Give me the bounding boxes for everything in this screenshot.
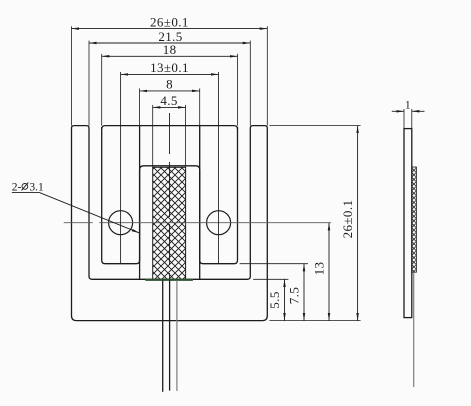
- side view wire gray: [413, 272, 415, 387]
- svg-text:2-: 2-: [12, 181, 22, 193]
- green element base line: [145, 279, 193, 281]
- dimension 26±0.1 right: [357, 126, 359, 321]
- dimension 4.5: [153, 106, 186, 108]
- dimension 21.5: [89, 42, 250, 44]
- wire lead right gray: [176, 280, 178, 391]
- dimension 13 right: [328, 223, 330, 321]
- dimension 7.5 right: [303, 264, 305, 321]
- svg-text:8: 8: [166, 77, 173, 92]
- side view extension lines: [403, 109, 405, 129]
- svg-text:26±0.1: 26±0.1: [150, 14, 189, 29]
- side view plate 1mm thick: [404, 129, 412, 318]
- svg-text:4.5: 4.5: [160, 93, 177, 108]
- hole centerline left: [120, 72, 122, 263]
- svg-text:13: 13: [311, 262, 326, 276]
- hole right: [207, 211, 231, 235]
- svg-text:3.1: 3.1: [29, 181, 44, 193]
- svg-text:18: 18: [163, 42, 177, 57]
- svg-text:5.5: 5.5: [267, 291, 282, 308]
- extension lines right side: [269, 125, 360, 127]
- svg-text:26±0.1: 26±0.1: [340, 200, 355, 239]
- dimension 13±0.1: [121, 73, 219, 75]
- hole centerline right: [218, 72, 220, 263]
- wire lead left: [162, 280, 164, 391]
- dimension 8: [140, 90, 200, 92]
- dimension 26±0.1 top: [72, 28, 268, 30]
- dimension 18: [102, 55, 238, 57]
- vertical centerline of part: [169, 113, 171, 279]
- hole left: [109, 211, 133, 235]
- right window with hole: [200, 126, 238, 264]
- svg-text:7.5: 7.5: [286, 287, 301, 304]
- left window with hole: [102, 126, 140, 264]
- outer plate outline 26x26 with top ears and inner channel: [72, 126, 268, 321]
- central slot 8mm: [140, 166, 200, 279]
- dimension 5.5 right: [284, 279, 286, 320]
- svg-text:1: 1: [405, 100, 411, 112]
- wire lead middle: [169, 280, 171, 390]
- island top edge 18mm wide: [102, 126, 238, 130]
- side view hatched strip: [412, 167, 417, 272]
- svg-text:13±0.1: 13±0.1: [150, 60, 189, 75]
- hatched elastomer element 4.5mm: [153, 167, 186, 279]
- horizontal centerline through holes: [64, 222, 331, 224]
- dimension 1 side view: [392, 110, 404, 112]
- extension lines above top dimensions: [71, 26, 73, 125]
